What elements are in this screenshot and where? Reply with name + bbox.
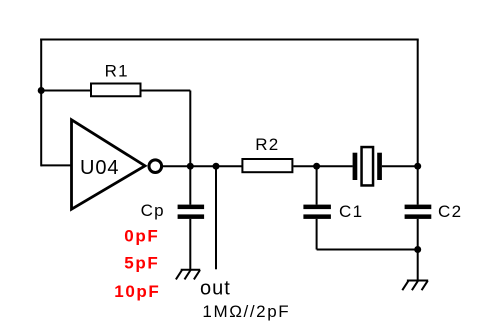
svg-text:10pF: 10pF	[114, 282, 160, 301]
svg-text:C2: C2	[438, 202, 462, 221]
svg-text:0pF: 0pF	[124, 227, 159, 246]
svg-text:Cp: Cp	[141, 201, 165, 220]
svg-text:1MΩ//2pF: 1MΩ//2pF	[202, 302, 290, 321]
svg-text:out: out	[200, 277, 231, 299]
svg-text:R1: R1	[105, 62, 129, 81]
svg-text:U04: U04	[80, 157, 119, 179]
svg-text:5pF: 5pF	[124, 253, 159, 272]
svg-text:R2: R2	[255, 135, 279, 154]
svg-text:C1: C1	[339, 202, 363, 221]
